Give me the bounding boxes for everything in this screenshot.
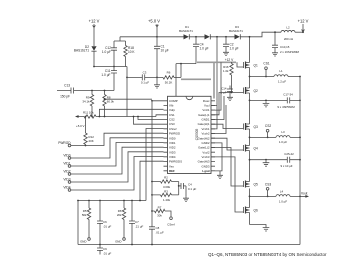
svg-text:L3: L3 <box>281 130 285 134</box>
terminal GND2 <box>115 238 125 244</box>
wire bottom network rail <box>78 201 146 245</box>
wire VID2 to IC <box>71 147 164 174</box>
capacitor C14 <box>220 86 233 96</box>
svg-text:VID0: VID0 <box>169 136 176 140</box>
svg-text:Lgnd: Lgnd <box>202 169 209 173</box>
resistor R18 <box>124 41 136 67</box>
wire gate Q3 <box>211 124 244 128</box>
svg-text:REF: REF <box>169 169 175 173</box>
capacitor C7 <box>129 201 143 245</box>
wire Q6 source to ground <box>250 225 267 226</box>
inductor L1 <box>274 69 288 84</box>
svg-text:Vfb: Vfb <box>169 104 174 108</box>
wire +5V vertical <box>156 27 158 83</box>
transistor Q6 <box>244 207 258 214</box>
terminal PWRGD <box>58 141 71 147</box>
terminal VID1 <box>63 162 70 168</box>
svg-text:VID4: VID4 <box>169 155 176 159</box>
svg-text:50.2K: 50.2K <box>165 81 173 85</box>
wire VCCL riser x217 <box>211 37 217 129</box>
svg-text:Gate(H)3: Gate(H)3 <box>198 160 210 164</box>
wire phase3 <box>250 195 301 197</box>
svg-text:BAS16LT1: BAS16LT1 <box>229 29 243 33</box>
ground under C10 <box>272 51 278 56</box>
diode D2 <box>74 45 97 53</box>
wire bundle gray horizontal <box>197 61 236 63</box>
wire gate Q4 <box>211 138 244 150</box>
svg-text:CS3: CS3 <box>265 182 271 186</box>
svg-text:BAS16LT1: BAS16LT1 <box>179 29 193 33</box>
capacitor C4 comp <box>178 182 197 197</box>
svg-text:Rosc: Rosc <box>203 99 210 103</box>
svg-text:+5.0 V: +5.0 V <box>76 124 85 128</box>
wire VID3 to IC <box>71 152 164 182</box>
terminal CS1 <box>263 62 269 78</box>
svg-text:1.0k: 1.0k <box>223 69 229 73</box>
wire VID1 to IC <box>71 143 164 167</box>
transistor Q4 <box>244 145 258 152</box>
svg-text:.01 µF: .01 µF <box>156 231 164 235</box>
svg-text:200 nH: 200 nH <box>284 37 293 41</box>
svg-text:1.40k: 1.40k <box>163 198 171 202</box>
wire CSref run <box>146 129 164 201</box>
svg-text:Gate(H)2: Gate(H)2 <box>198 136 210 140</box>
terminal GND1 <box>80 238 90 244</box>
wire drain trunk <box>249 37 251 225</box>
wire bottom rail <box>78 244 300 246</box>
ground under C2 <box>223 51 229 56</box>
svg-text:C6: C6 <box>103 220 107 224</box>
svg-text:C3: C3 <box>143 71 147 75</box>
diode D1 <box>179 25 193 39</box>
svg-text:56k: 56k <box>82 213 87 217</box>
ground under C14 <box>227 96 233 101</box>
svg-text:R7: R7 <box>158 206 162 210</box>
wire bundle gray vertical <box>213 63 215 99</box>
wire CS3 row <box>134 117 164 125</box>
svg-text:Vccl2: Vccl2 <box>202 150 209 154</box>
svg-text:Vccl: Vccl <box>204 104 210 108</box>
svg-text:10 K: 10 K <box>128 50 135 54</box>
svg-text:C8: C8 <box>156 226 160 230</box>
svg-text:20k: 20k <box>117 213 122 217</box>
svg-text:VID1: VID1 <box>169 141 176 145</box>
net +12V mid / resistor R16 <box>223 58 234 93</box>
wire COMP comp-network row <box>105 98 153 100</box>
capacitor C1 <box>154 45 169 53</box>
wire output bus <box>299 77 301 245</box>
capacitor C6 <box>97 201 111 245</box>
transistor Q2 <box>244 87 258 94</box>
svg-text:CS3: CS3 <box>169 122 175 126</box>
terminal CSref <box>167 217 175 227</box>
wire node D2 bottom <box>94 51 127 66</box>
resistor R3 <box>152 189 179 202</box>
IC pin stubs and labels <box>164 99 216 173</box>
capacitor C3 <box>127 71 163 85</box>
svg-text:Q1–Q6, NTB85N03 or NTB85N03T4: Q1–Q6, NTB85N03 or NTB85N03T4 by ON Semi… <box>208 252 327 257</box>
resistor R6 <box>163 71 181 85</box>
transistor Q1 <box>244 62 258 69</box>
svg-text:1.0 µF: 1.0 µF <box>230 47 239 51</box>
svg-text:1.0 µF: 1.0 µF <box>279 140 287 144</box>
svg-text:VID3: VID3 <box>169 150 176 154</box>
wire PWRGD to IC <box>71 133 164 145</box>
svg-text:CS1: CS1 <box>263 62 269 66</box>
svg-text:Vdrp: Vdrp <box>169 108 175 112</box>
svg-text:34.1k: 34.1k <box>82 100 90 104</box>
svg-text:BAS16LT1: BAS16LT1 <box>74 49 89 53</box>
resistor R9 <box>82 91 93 117</box>
svg-text:C7: C7 <box>135 220 139 224</box>
svg-text:GND1: GND1 <box>201 118 209 122</box>
svg-text:VID2: VID2 <box>169 146 176 150</box>
terminal VID0 <box>63 154 70 160</box>
wire phase1 <box>250 76 301 78</box>
svg-text:9 x 4SP560M: 9 x 4SP560M <box>277 105 295 109</box>
svg-text:PWRGD: PWRGD <box>169 132 180 136</box>
svg-text:CS1: CS1 <box>169 113 175 117</box>
wire vccl1 riser <box>211 62 221 110</box>
svg-text:3.09k: 3.09k <box>163 185 171 189</box>
net Vout arrow <box>299 192 309 198</box>
svg-text:20K: 20K <box>89 139 94 143</box>
svg-text:C9: C9 <box>103 247 107 251</box>
svg-text:Gate(L)1: Gate(L)1 <box>198 113 210 117</box>
svg-text:Gate(L)2: Gate(L)2 <box>198 146 210 150</box>
svg-text:C13: C13 <box>64 84 70 88</box>
resistor R8 <box>103 91 115 117</box>
wire Vdrp row <box>99 109 163 116</box>
wire gate Q1 <box>237 62 244 67</box>
inductor L4 <box>276 190 290 204</box>
wire CS2 row <box>138 117 164 120</box>
wire gate Q5 <box>211 148 244 187</box>
terminal VID3 <box>63 178 70 184</box>
ground Q6 <box>263 226 270 232</box>
wire top rail y36.8 <box>157 32 281 37</box>
wire gate Q2 <box>211 93 244 115</box>
svg-text:1.0 µF: 1.0 µF <box>279 200 287 204</box>
svg-text:R2: R2 <box>164 176 168 180</box>
svg-text:L1: L1 <box>279 69 283 73</box>
resistor R6b <box>117 201 126 238</box>
svg-text:C25-42: C25-42 <box>284 152 294 156</box>
svg-text:L4: L4 <box>280 190 284 194</box>
svg-text:GND3: GND3 <box>201 164 209 168</box>
wire gnd1 run <box>211 96 224 120</box>
svg-text:1.0 µF: 1.0 µF <box>102 50 111 54</box>
svg-text:+5.0 V: +5.0 V <box>148 19 160 24</box>
wire vcch2 run <box>211 105 226 134</box>
svg-text:C10,15: C10,15 <box>280 45 290 49</box>
svg-text:Q5: Q5 <box>254 183 258 187</box>
svg-text:1.0 µF: 1.0 µF <box>200 47 209 51</box>
net +12V left <box>89 19 100 28</box>
terminal VID4 <box>63 186 70 192</box>
svg-text:Q6: Q6 <box>254 209 258 213</box>
wire PWRGDS run <box>140 161 164 200</box>
inductor L2 <box>281 25 303 41</box>
svg-text:Q1: Q1 <box>254 64 258 68</box>
svg-text:+12 V: +12 V <box>225 58 234 62</box>
svg-text:L2: L2 <box>286 25 290 29</box>
svg-text:CS2: CS2 <box>169 118 175 122</box>
wire gnd rail 1 / capacitor C17-34 <box>250 93 301 109</box>
svg-text:Vss: Vss <box>169 164 174 168</box>
wire left node row <box>57 90 114 92</box>
inductor L3 <box>276 130 290 144</box>
svg-text:+12 V: +12 V <box>298 19 309 24</box>
wire bundle gray top of IC <box>181 78 211 80</box>
capacitor C10,15 <box>272 31 300 54</box>
svg-text:1.0 µF: 1.0 µF <box>101 73 110 77</box>
svg-text:Q4: Q4 <box>254 147 258 151</box>
wire gate Q6 <box>211 157 244 212</box>
svg-text:Q3: Q3 <box>254 125 258 129</box>
svg-text:GND2: GND2 <box>201 141 209 145</box>
svg-text:R6: R6 <box>167 71 171 75</box>
svg-text:Gate(H)1: Gate(H)1 <box>198 122 210 126</box>
transistor Q5 <box>244 181 258 188</box>
diode D3 <box>229 25 243 39</box>
terminal CS2 <box>265 124 271 138</box>
ground rail1 <box>263 101 270 107</box>
net +12V right <box>298 19 309 34</box>
svg-text:.01 µF: .01 µF <box>103 252 111 256</box>
wire corner x127 <box>126 67 128 117</box>
svg-text:10 µF: 10 µF <box>161 49 169 53</box>
terminal CS3 <box>265 182 271 197</box>
capacitor C2 <box>223 37 239 51</box>
svg-text:+12 V: +12 V <box>89 19 100 24</box>
wire C4 bottom run <box>176 64 196 97</box>
resistor R7 <box>152 206 171 218</box>
resistor R2 <box>152 176 179 189</box>
svg-text:Q2: Q2 <box>254 89 258 93</box>
wire gnd2 run <box>211 143 222 171</box>
svg-text:0.1 µF: 0.1 µF <box>141 81 149 85</box>
svg-text:Vcch2: Vcch2 <box>201 132 209 136</box>
capacitor C9 below rail <box>97 245 111 256</box>
ground rail2 <box>263 161 270 167</box>
svg-text:150 pF: 150 pF <box>60 95 70 99</box>
wire VID4 to IC <box>71 157 164 191</box>
svg-text:CS2: CS2 <box>265 124 271 128</box>
op-amp U1 CS5305 controller IC <box>168 96 212 173</box>
capacitor C4t <box>193 37 209 64</box>
svg-text:C17-34: C17-34 <box>283 93 293 97</box>
svg-text:GND: GND <box>115 240 121 244</box>
capacitor C13 <box>60 84 74 99</box>
ground under C4 <box>183 196 189 201</box>
svg-text:COMP: COMP <box>169 99 178 103</box>
svg-text:Vcch3: Vcch3 <box>201 155 209 159</box>
svg-text:PWRGDS: PWRGDS <box>169 160 182 164</box>
svg-text:Vcch1: Vcch1 <box>201 127 209 131</box>
svg-text:.21 µF: .21 µF <box>135 225 143 229</box>
ground under +5V rail <box>154 83 160 88</box>
svg-text:1.2 µF: 1.2 µF <box>278 79 286 83</box>
wire VID0 to IC <box>71 138 164 158</box>
resistor R5 <box>82 201 91 238</box>
svg-text:30k: 30k <box>157 214 162 218</box>
capacitor C11 <box>101 67 117 91</box>
ground LGND under IC <box>215 171 220 174</box>
svg-text:Vccl1: Vccl1 <box>202 108 209 112</box>
svg-text:CSref: CSref <box>169 127 177 131</box>
svg-text:60.0k: 60.0k <box>107 100 115 104</box>
capacitor C8 series <box>149 226 164 235</box>
svg-text:9 x 10 µF: 9 x 10 µF <box>280 164 292 168</box>
svg-text:R11 10k: R11 10k <box>83 111 94 115</box>
net +5.0V feed / resistor R11 <box>75 111 164 129</box>
wire <box>93 27 95 46</box>
svg-text:0.1 µF: 0.1 µF <box>188 187 196 191</box>
resistor R12 <box>84 117 94 147</box>
svg-text:R3: R3 <box>164 189 168 193</box>
svg-text:Vout: Vout <box>301 192 307 196</box>
net +5.0V <box>148 19 160 27</box>
wire R18/C12 top rail riser <box>114 37 157 41</box>
wire phase2 <box>250 136 301 138</box>
svg-text:.01 µF: .01 µF <box>103 225 111 229</box>
terminal VID2 <box>63 170 70 176</box>
capacitor C12 <box>102 41 117 67</box>
diode D5 <box>205 34 211 39</box>
svg-text:GND: GND <box>80 240 86 244</box>
wire gnd rail 2 / capacitor C25-42 <box>250 152 301 168</box>
svg-text:2 x 16SP180M: 2 x 16SP180M <box>280 50 300 54</box>
transistor Q3 <box>244 123 258 130</box>
wire COMP vertical <box>152 101 164 245</box>
svg-text:CSref: CSref <box>167 223 175 227</box>
